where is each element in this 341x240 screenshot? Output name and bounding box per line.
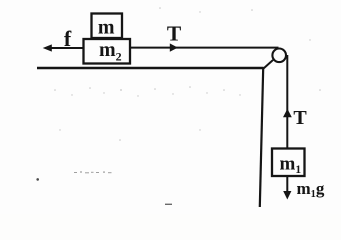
svg-text:T: T	[293, 107, 307, 129]
wire: table top surface line	[37, 67, 264, 70]
scan artifact: bleed-through smudge row	[74, 171, 112, 173]
wire: weight arrow line below m1	[286, 176, 288, 193]
wire: pulley bracket diagonal	[264, 60, 274, 69]
scan artifact: faint dash bottom centre	[165, 204, 172, 205]
pulley circle at table corner	[272, 49, 286, 63]
arrowhead: friction f pointing left	[43, 44, 52, 51]
scan artifact: faint speckles	[54, 7, 321, 141]
arrowhead: tension T pointing up on vertical string	[283, 109, 292, 117]
arrowhead: tension T pointing right on horizontal string	[170, 43, 178, 51]
wire: table right edge vertical line	[260, 68, 263, 207]
block m1 (hanging block)	[272, 149, 305, 177]
wire: horizontal string from m2 to pulley	[130, 47, 279, 49]
block m2 (lower block on table)	[84, 39, 131, 64]
wire: friction arrow line from m2 to left	[47, 47, 84, 49]
svg-text:m: m	[98, 17, 115, 39]
scan artifact: dark dot lower left	[36, 178, 39, 181]
svg-text:f: f	[64, 26, 72, 51]
arrowhead: weight m1g pointing down	[283, 191, 291, 200]
svg-text:T: T	[167, 22, 182, 46]
wire: vertical string from pulley down to block m1	[286, 55, 288, 149]
block m (top block)	[92, 14, 123, 39]
